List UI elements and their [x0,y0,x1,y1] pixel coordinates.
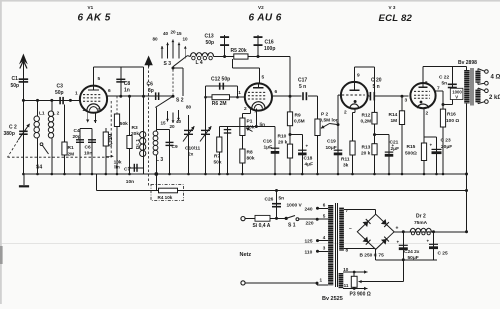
svg-text:2M: 2M [68,152,75,158]
svg-text:2 kΩ: 2 kΩ [489,95,500,101]
svg-text:1: 1 [320,278,323,283]
svg-text:2: 2 [426,111,429,117]
svg-text:20: 20 [170,124,176,129]
svg-text:ECL 82: ECL 82 [379,13,413,24]
svg-text:4: 4 [323,235,326,240]
svg-text:7: 7 [437,86,440,92]
svg-text:R6 2M: R6 2M [212,101,227,107]
svg-text:+: + [306,144,309,149]
svg-text:R4 10k: R4 10k [158,195,173,200]
svg-text:5 n: 5 n [299,84,306,90]
svg-text:+: + [430,143,433,148]
svg-text:1: 1 [75,91,78,97]
svg-text:0,2M: 0,2M [361,119,372,125]
svg-text:C16: C16 [263,139,272,145]
svg-text:C4: C4 [74,128,80,134]
svg-text:V2: V2 [258,5,264,10]
svg-text:220: 220 [306,221,314,227]
svg-text:40: 40 [176,119,182,124]
svg-text:2: 2 [83,107,86,113]
svg-text:7: 7 [97,108,100,114]
svg-text:0,22M: 0,22M [108,134,113,147]
svg-text:C9: C9 [172,144,178,150]
svg-text:V1: V1 [88,5,94,10]
svg-text:5: 5 [323,214,326,219]
svg-text:5n: 5n [279,196,285,202]
svg-text:C6: C6 [147,82,154,88]
svg-text:6 AU 6: 6 AU 6 [249,13,282,24]
svg-text:6 AK 5: 6 AK 5 [78,13,111,24]
svg-text:C26: C26 [265,197,274,203]
svg-text:C3: C3 [57,84,64,90]
svg-text:V: V [455,94,458,99]
svg-text:2: 2 [244,106,247,112]
svg-text:4μF: 4μF [305,162,314,168]
svg-text:C18: C18 [304,156,313,162]
svg-text:2μF: 2μF [391,146,400,152]
svg-text:5: 5 [98,76,101,82]
svg-text:0,5M: 0,5M [294,119,305,125]
svg-text:R9: R9 [295,113,301,119]
svg-text:50k: 50k [214,160,222,166]
svg-text:15: 15 [177,31,183,36]
svg-text:Dr 2: Dr 2 [416,214,426,220]
svg-text:P 2: P 2 [321,112,328,118]
svg-text:2: 2 [344,110,347,116]
svg-text:C 2: C 2 [9,125,17,131]
svg-text:500Ω: 500Ω [405,151,417,157]
svg-text:C24 2x: C24 2x [404,249,420,255]
svg-text:11: 11 [344,283,349,288]
svg-text:4 Ω: 4 Ω [491,75,500,81]
svg-text:−: − [368,207,371,213]
svg-text:6: 6 [425,80,428,86]
svg-text:2x: 2x [188,152,194,158]
svg-text:125: 125 [305,239,313,245]
svg-text:R7: R7 [214,154,220,160]
svg-text:5: 5 [262,75,265,81]
svg-text:80: 80 [153,37,159,42]
svg-text:R5 20k: R5 20k [231,48,247,54]
svg-text:50k: 50k [120,121,128,127]
svg-text:50μF: 50μF [408,255,419,261]
svg-text:6: 6 [323,203,326,208]
svg-text:240: 240 [305,206,313,212]
svg-text:7: 7 [346,208,349,213]
svg-text:1μF: 1μF [264,145,273,151]
svg-text:P3 900 Ω: P3 900 Ω [350,292,371,298]
svg-text:R8: R8 [247,150,253,156]
svg-text:Bv 2525: Bv 2525 [322,296,343,302]
svg-text:R13: R13 [362,145,371,151]
svg-text:R11: R11 [341,157,350,163]
svg-text:0,5M log: 0,5M log [320,118,339,124]
svg-text:1: 1 [238,90,241,96]
svg-text:C 20: C 20 [371,78,382,84]
svg-text:C 22: C 22 [439,75,449,81]
svg-text:C12 50p: C12 50p [211,77,230,83]
svg-text:5n: 5n [442,81,448,87]
svg-text:L1: L1 [39,111,45,117]
svg-text:3: 3 [405,98,408,104]
svg-text:L 2: L 2 [53,111,60,117]
svg-text:R3: R3 [132,125,138,131]
svg-text:R10: R10 [278,134,287,140]
svg-text:20p: 20p [73,134,81,140]
svg-text:S 1: S 1 [288,223,296,229]
svg-text:10n: 10n [126,179,134,185]
svg-text:20k: 20k [131,131,139,137]
svg-text:C1: C1 [12,76,19,82]
svg-text:10: 10 [183,37,189,42]
svg-text:C 23: C 23 [441,138,451,144]
svg-text:R16: R16 [447,112,456,118]
svg-text:+: + [427,239,430,244]
svg-text:+: + [397,240,400,245]
svg-text:lin: lin [114,164,120,170]
svg-text:10μF: 10μF [326,145,337,151]
svg-text:C17: C17 [298,78,307,84]
svg-text:3k: 3k [343,163,349,169]
svg-text:L 4: L 4 [196,60,203,66]
svg-text:1M: 1M [391,118,398,124]
svg-text:lin: lin [260,122,266,128]
svg-text:50p: 50p [55,90,64,96]
svg-text:S 3: S 3 [164,61,172,67]
svg-text:V 3: V 3 [389,5,396,10]
svg-text:75mA: 75mA [414,220,428,226]
svg-text:80k: 80k [247,156,255,162]
svg-text:50p: 50p [11,83,20,89]
svg-text:Dr. 1: Dr. 1 [135,139,140,149]
svg-text:20 k: 20 k [361,151,371,157]
svg-text:15: 15 [161,121,167,126]
svg-text:C 25: C 25 [438,251,448,257]
svg-text:C10/11: C10/11 [185,146,201,152]
svg-text:C13: C13 [205,34,214,40]
svg-text:80: 80 [186,105,192,110]
svg-text:S 2: S 2 [176,98,184,104]
svg-text:10: 10 [343,267,349,272]
svg-text:−: − [349,226,352,232]
svg-text:380p: 380p [4,131,15,137]
svg-text:1000 V: 1000 V [287,203,303,209]
svg-text:40: 40 [163,31,169,36]
svg-text:20μF: 20μF [441,144,452,150]
svg-text:1n: 1n [124,88,130,94]
svg-text:100p: 100p [264,46,275,52]
svg-text:C16: C16 [265,40,274,46]
svg-text:110: 110 [305,249,313,255]
svg-text:20: 20 [171,30,177,35]
svg-text:C21: C21 [390,140,399,146]
svg-text:Bv 2898: Bv 2898 [458,60,477,66]
svg-text:9: 9 [357,73,360,79]
svg-text:R14: R14 [389,112,398,118]
svg-text:50p: 50p [206,40,215,46]
svg-text:Si 0,4 A: Si 0,4 A [253,223,271,229]
svg-text:S4: S4 [36,165,42,171]
svg-text:5 n: 5 n [373,84,380,90]
svg-text:L 3: L 3 [156,157,163,163]
svg-text:3: 3 [323,246,326,251]
svg-text:R12: R12 [362,113,371,119]
svg-text:6: 6 [108,88,111,94]
svg-text:C8: C8 [124,81,131,87]
svg-text:C19: C19 [327,139,336,145]
svg-text:10n: 10n [84,151,92,157]
svg-text:B 250 C 75: B 250 C 75 [360,253,385,259]
svg-text:Netz: Netz [240,252,252,258]
svg-text:+: + [396,226,399,232]
svg-text:C6: C6 [85,145,91,151]
svg-text:R15: R15 [407,144,416,150]
svg-text:R1: R1 [68,145,74,151]
svg-text:20 k: 20 k [278,140,288,146]
svg-text:100 Ω: 100 Ω [446,118,459,124]
svg-text:6: 6 [275,89,278,95]
svg-text:P1: P1 [247,119,253,125]
